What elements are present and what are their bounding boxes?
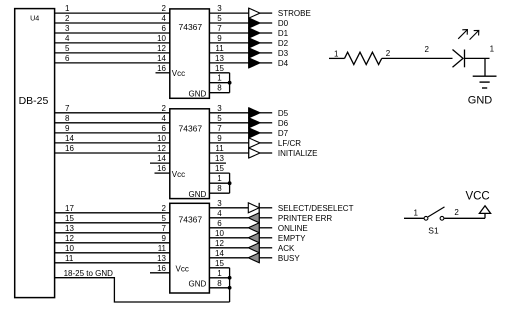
- buffer arrow D0 (filled): [249, 18, 260, 28]
- label DB-25: [19, 95, 49, 107]
- svg-text:10: 10: [65, 244, 74, 253]
- pin label 16 (U2): [157, 164, 166, 173]
- label EMPTY: [278, 234, 306, 243]
- svg-text:15: 15: [65, 214, 74, 223]
- wire U1 pin 15 stub: [209, 72, 229, 74]
- wire U3 pin 3 to buffer: [209, 207, 248, 209]
- svg-text:4: 4: [162, 14, 167, 23]
- pin label 1 (U3): [217, 269, 222, 278]
- pin label 13 (DB25 side): [65, 224, 74, 233]
- wire ONLINE to label: [259, 227, 272, 229]
- svg-text:STROBE: STROBE: [278, 9, 311, 18]
- pin label 3 (U2 output): [217, 104, 222, 113]
- wire U3 pin 15 stub: [209, 267, 229, 269]
- pin label 9 (U1 output): [217, 34, 222, 43]
- svg-text:2: 2: [162, 4, 167, 13]
- label D6: [278, 119, 289, 128]
- wire DB25 pins 18-25 to GND run: [55, 278, 230, 302]
- pin label 3 (U3 output): [217, 199, 222, 208]
- pin label 2 (S1): [454, 208, 459, 217]
- pin label 1 (S1): [414, 209, 419, 218]
- pin label 16 (U1): [157, 64, 166, 73]
- wire U1 enable tie vertical (pins 15/1/8): [229, 73, 231, 93]
- svg-text:14: 14: [65, 134, 74, 143]
- svg-text:3: 3: [65, 24, 70, 33]
- pin label 11 (U3 input): [158, 244, 167, 253]
- pin label 14 (U1 input): [157, 54, 166, 63]
- pin label 1 (U2): [217, 174, 222, 183]
- wire resistor pin 1 lead: [329, 57, 345, 59]
- wire ground drop: [484, 58, 486, 76]
- pin label 6 (U3 output): [217, 219, 222, 228]
- resistor R1: [345, 52, 382, 64]
- wire DB25 pin 14 to U2 pin 10: [55, 142, 170, 144]
- pin label 10 (U1 input): [157, 34, 166, 43]
- svg-text:Vcc: Vcc: [176, 265, 189, 274]
- svg-text:VCC: VCC: [465, 190, 489, 202]
- svg-text:GND: GND: [189, 280, 207, 289]
- pin label 2 (LED anode): [425, 45, 430, 54]
- label GND (U2): [189, 190, 207, 199]
- pin label 10 (U3 output): [215, 229, 224, 238]
- pin label 3 (DB25 side): [65, 24, 70, 33]
- wire switch pin 1 lead: [404, 217, 424, 219]
- wire U2 pin 9 to buffer: [209, 142, 248, 144]
- VCC symbol (open triangle): [479, 206, 490, 214]
- svg-text:7: 7: [162, 224, 167, 233]
- label STROBE: [278, 9, 311, 18]
- wire U3 pin 16 Vcc stub: [150, 272, 170, 274]
- svg-text:D7: D7: [278, 129, 289, 138]
- buffer IC U2 74367 body: [170, 109, 210, 199]
- wire U1 pin 7 to buffer: [209, 32, 248, 34]
- svg-text:14: 14: [157, 54, 166, 63]
- pin label 9 (U2 output): [217, 134, 222, 143]
- svg-text:10: 10: [157, 34, 166, 43]
- pin label 9 (U3 input): [162, 234, 167, 243]
- pin label 5 (U1 output): [217, 14, 222, 23]
- svg-text:PRINTER ERR: PRINTER ERR: [278, 214, 332, 223]
- wire DB25 pin 12 to U3 pin 9: [55, 242, 170, 244]
- svg-text:1: 1: [414, 209, 419, 218]
- pin label 12 (U3 output): [215, 239, 224, 248]
- buffer arrow EMPTY (gray, pointing left): [248, 233, 259, 243]
- svg-text:7: 7: [217, 24, 222, 33]
- svg-text:U4: U4: [30, 13, 39, 22]
- svg-text:8: 8: [65, 114, 70, 123]
- label GND (U3): [189, 280, 207, 289]
- svg-text:8: 8: [217, 184, 222, 193]
- pin label 11 (U2 output): [215, 144, 224, 153]
- wire U2 pin 5 to buffer: [209, 122, 248, 124]
- svg-text:5: 5: [217, 114, 222, 123]
- wire D3 to label: [260, 52, 272, 54]
- svg-text:D4: D4: [278, 59, 289, 68]
- pin label 16 (DB25 side): [65, 144, 74, 153]
- pin label 1 (U1): [217, 74, 222, 83]
- wire D7 to label: [260, 132, 272, 134]
- svg-text:6: 6: [162, 24, 167, 33]
- svg-text:BUSY: BUSY: [278, 254, 300, 263]
- pin label 2 (U2 input): [162, 104, 167, 113]
- svg-text:16: 16: [65, 144, 74, 153]
- wire PRINTER ERR to label: [259, 217, 272, 219]
- wire U1 pin 13 to buffer: [209, 62, 248, 64]
- wire U1 pin 16 Vcc stub: [156, 72, 170, 74]
- pin label 12 (DB25 side): [65, 234, 74, 243]
- svg-text:8: 8: [217, 279, 222, 288]
- pin label 1 (LED cathode): [490, 44, 495, 53]
- wire DB25 pin 5 to U1 pin 12: [55, 52, 170, 54]
- svg-text:9: 9: [162, 234, 167, 243]
- label ONLINE: [278, 224, 308, 233]
- svg-text:D2: D2: [278, 39, 289, 48]
- svg-text:1: 1: [334, 50, 339, 59]
- label BUSY: [278, 254, 300, 263]
- wire U1 pin 5 to buffer: [209, 22, 248, 24]
- buffer arrow ONLINE (gray, pointing left): [248, 223, 259, 233]
- pin label 12 (U2 input): [157, 144, 166, 153]
- pin label 15 (DB25 side): [65, 214, 74, 223]
- svg-text:14: 14: [215, 249, 224, 258]
- label 74367 (U2): [179, 124, 203, 134]
- buffer arrow LF/CR (open): [249, 138, 260, 148]
- label ACK: [278, 244, 295, 253]
- buffer arrow ACK (gray, pointing left): [248, 243, 259, 253]
- svg-text:14: 14: [157, 154, 166, 163]
- wire DB25 pin 9 to U2 pin 6: [55, 132, 170, 134]
- svg-text:3: 3: [217, 199, 222, 208]
- label VCC: [465, 190, 489, 202]
- wire U1 pin 3 to buffer: [209, 12, 248, 14]
- wire D2 to label: [260, 42, 272, 44]
- svg-text:Vcc: Vcc: [172, 170, 185, 179]
- wire EMPTY to label: [259, 237, 272, 239]
- svg-text:12: 12: [157, 144, 166, 153]
- pin label 1 (DB25 side): [65, 4, 70, 13]
- LED D1 anode arrow: [453, 50, 464, 68]
- svg-text:16: 16: [157, 264, 166, 273]
- svg-text:13: 13: [215, 154, 224, 163]
- svg-text:ONLINE: ONLINE: [278, 224, 308, 233]
- svg-text:15: 15: [215, 164, 224, 173]
- svg-text:LF/CR: LF/CR: [278, 139, 301, 148]
- svg-text:2: 2: [454, 208, 459, 217]
- wire U3 pin 4 to buffer: [209, 217, 248, 219]
- junction dot U3 pin 8: [228, 286, 232, 290]
- port bus line group 1: [248, 8, 250, 68]
- svg-text:15: 15: [215, 64, 224, 73]
- pin label 4 (DB25 side): [65, 34, 70, 43]
- svg-text:8: 8: [217, 84, 222, 93]
- buffer arrow D2 (filled): [249, 38, 260, 48]
- buffer arrow PRINTER ERR (gray, pointing left): [248, 213, 259, 223]
- switch S1 contact right: [440, 216, 444, 220]
- svg-text:3: 3: [217, 4, 222, 13]
- svg-text:9: 9: [217, 34, 222, 43]
- pin label 11 (U1 output): [215, 44, 224, 53]
- svg-text:2: 2: [162, 104, 167, 113]
- svg-text:13: 13: [157, 254, 166, 263]
- svg-text:18-25 to GND: 18-25 to GND: [64, 269, 114, 278]
- buffer arrow D3 (filled): [249, 48, 260, 58]
- ground symbol: [473, 76, 497, 88]
- LED D1 cathode bar: [464, 50, 466, 68]
- svg-text:1: 1: [490, 44, 495, 53]
- pin label 11 (DB25 side): [65, 254, 74, 263]
- port bus line group 2: [248, 108, 250, 158]
- svg-text:DB-25: DB-25: [19, 95, 49, 107]
- wire U2 pin 13 stub: [209, 162, 226, 164]
- svg-text:11: 11: [215, 44, 224, 53]
- svg-text:D6: D6: [278, 119, 289, 128]
- svg-text:12: 12: [215, 239, 224, 248]
- wire U1 pin 11 to buffer: [209, 52, 248, 54]
- label PRINTER ERR: [278, 214, 332, 223]
- label D5: [278, 109, 289, 118]
- pin label 15 (U3): [215, 259, 224, 268]
- wire DB25 pin 11 to U3 pin 13: [55, 262, 170, 264]
- port bus line group 3: [258, 203, 260, 263]
- pin label 8 (U1): [217, 84, 222, 93]
- pin label 4 (U3 output): [217, 209, 222, 218]
- label S1: [428, 225, 439, 235]
- label 74367 (U3): [179, 215, 203, 225]
- wire U1 pin 8 stub: [209, 92, 229, 94]
- wire LED cathode to ground node: [465, 57, 490, 59]
- pin label 6 (U2 input): [162, 124, 167, 133]
- wire U3 pin 12 to buffer: [209, 247, 248, 249]
- pin label 17 (DB25 side): [65, 204, 74, 213]
- wire D5 to label: [260, 112, 272, 114]
- pin label 4 (U2 input): [162, 114, 167, 123]
- pin label 16 (U3): [157, 264, 166, 273]
- label Vcc (U1 pin 16): [172, 69, 185, 78]
- wire U2 pin 7 to buffer: [209, 132, 248, 134]
- svg-text:16: 16: [157, 64, 166, 73]
- svg-text:ACK: ACK: [278, 244, 295, 253]
- pin label 6 (U1 input): [162, 24, 167, 33]
- buffer arrow D1 (filled): [249, 28, 260, 38]
- wire D1 to label: [260, 32, 272, 34]
- pin label 14 (U3 output): [215, 249, 224, 258]
- label D1: [278, 29, 289, 38]
- wire DB25 pin 4 to U1 pin 10: [55, 42, 170, 44]
- pin label 8 (U2): [217, 184, 222, 193]
- wire U2 pin 15 stub: [209, 172, 229, 174]
- pin label 2 (U3 input): [162, 204, 167, 213]
- pin label 2 (DB25 side): [65, 14, 70, 23]
- svg-text:2: 2: [162, 204, 167, 213]
- label Vcc (U2 pin 16): [172, 170, 185, 179]
- LED emission arrow 1: [458, 30, 467, 39]
- svg-text:1: 1: [217, 74, 222, 83]
- wire DB25 pin 17 to U3 pin 2: [55, 212, 170, 214]
- wire D4 to label: [260, 62, 272, 64]
- buffer arrow BUSY (gray, pointing left): [248, 253, 259, 263]
- wire U1 pin 9 to buffer: [209, 42, 248, 44]
- svg-text:GND: GND: [189, 90, 207, 99]
- wire ACK to label: [259, 247, 272, 249]
- pin label 5 (U2 output): [217, 114, 222, 123]
- svg-text:1: 1: [65, 4, 70, 13]
- svg-text:9: 9: [217, 134, 222, 143]
- svg-text:S1: S1: [428, 225, 439, 235]
- svg-text:10: 10: [157, 134, 166, 143]
- svg-text:12: 12: [65, 234, 74, 243]
- buffer arrow D6 (filled): [249, 118, 260, 128]
- pin label 10 (DB25 side): [65, 244, 74, 253]
- svg-text:7: 7: [217, 124, 222, 133]
- junction dot U1 pin 1: [228, 81, 232, 85]
- pin label 7 (U3 input): [162, 224, 167, 233]
- svg-text:INITIALIZE: INITIALIZE: [278, 149, 318, 158]
- svg-text:7: 7: [65, 104, 70, 113]
- svg-text:D5: D5: [278, 109, 289, 118]
- svg-text:1: 1: [217, 269, 222, 278]
- pin label 7 (DB25 side): [65, 104, 70, 113]
- pin label 2 (resistor): [386, 49, 391, 58]
- wire DB25 pin 10 to U3 pin 11: [55, 252, 170, 254]
- buffer arrow INITIALIZE (open): [249, 148, 260, 158]
- pin label 15 (U1): [215, 64, 224, 73]
- label 18-25 to GND: [64, 269, 114, 278]
- LED emission arrow 2: [470, 30, 479, 39]
- svg-text:6: 6: [65, 54, 70, 63]
- wire DB25 pin 13 to U3 pin 7: [55, 232, 170, 234]
- pin label 5 (DB25 side): [65, 44, 70, 53]
- wire U2 pin 16 Vcc stub: [155, 172, 170, 174]
- wire SELECT/DESELECT to label: [259, 207, 272, 209]
- svg-text:5: 5: [162, 214, 167, 223]
- svg-text:EMPTY: EMPTY: [278, 234, 306, 243]
- pin label 10 (U2 input): [157, 134, 166, 143]
- label GND (U1): [189, 90, 207, 99]
- pin label 13 (U1 output): [215, 54, 224, 63]
- wire U2 pin 3 to buffer: [209, 112, 248, 114]
- svg-text:74367: 74367: [179, 215, 203, 225]
- svg-text:11: 11: [158, 244, 167, 253]
- svg-text:D0: D0: [278, 19, 289, 28]
- wire U3 pin 10 to buffer: [209, 237, 248, 239]
- svg-text:4: 4: [65, 34, 70, 43]
- label SELECT/DESELECT: [278, 204, 354, 213]
- pin label 9 (DB25 side): [65, 124, 70, 133]
- svg-text:SELECT/DESELECT: SELECT/DESELECT: [278, 204, 354, 213]
- svg-text:GND: GND: [189, 190, 207, 199]
- pin label 3 (U1 output): [217, 4, 222, 13]
- svg-text:2: 2: [65, 14, 70, 23]
- label D7: [278, 129, 289, 138]
- svg-text:5: 5: [217, 14, 222, 23]
- label GND (ground symbol): [468, 95, 493, 107]
- wire BUSY to label: [259, 257, 272, 259]
- wire U1 pin 1 stub: [209, 82, 229, 84]
- svg-text:5: 5: [65, 44, 70, 53]
- wire DB25 pin 16 to U2 pin 12: [55, 152, 170, 154]
- wire resistor to LED anode: [382, 57, 453, 59]
- svg-text:13: 13: [215, 54, 224, 63]
- wire DB25 pin 2 to U1 pin 4: [55, 22, 170, 24]
- pin label 13 (U3 input): [157, 254, 166, 263]
- pin label 12 (U1 input): [157, 44, 166, 53]
- svg-text:2: 2: [386, 49, 391, 58]
- wire U2 enable tie vertical (pins 15/1/8): [229, 173, 231, 193]
- buffer IC U1 74367 body: [170, 9, 210, 98]
- wire U3 pin 1 stub: [209, 277, 229, 279]
- pin label 1 (resistor): [334, 50, 339, 59]
- svg-text:11: 11: [65, 254, 74, 263]
- svg-text:2: 2: [425, 45, 430, 54]
- wire DB25 pin 6 to U1 pin 14: [55, 62, 170, 64]
- svg-text:74367: 74367: [179, 124, 203, 134]
- pin label 13 (U2): [215, 154, 224, 163]
- wire U3 pin 14 to buffer: [209, 257, 248, 259]
- pin label 2 (U1 input): [162, 4, 167, 13]
- wire U3 pin 8 stub: [209, 287, 229, 289]
- pin label 14 (DB25 side): [65, 134, 74, 143]
- label D0: [278, 19, 289, 28]
- svg-text:3: 3: [217, 104, 222, 113]
- wire U2 pin 1 stub: [209, 182, 229, 184]
- buffer arrow D4 (filled): [249, 58, 260, 68]
- wire LF/CR to label: [260, 142, 272, 144]
- svg-text:Vcc: Vcc: [172, 69, 185, 78]
- junction dot U2 pin 1: [228, 181, 232, 185]
- svg-text:74367: 74367: [179, 22, 203, 32]
- wire switch pin 2 to VCC: [444, 217, 485, 219]
- svg-text:15: 15: [215, 259, 224, 268]
- wire DB25 pin 7 to U2 pin 2: [55, 112, 170, 114]
- wire U3 pin 6 to buffer: [209, 227, 248, 229]
- label 74367 (U1): [179, 22, 203, 32]
- svg-text:4: 4: [162, 114, 167, 123]
- wire U2 pin 14 stub: [150, 162, 170, 164]
- label D2: [278, 39, 289, 48]
- svg-text:11: 11: [215, 144, 224, 153]
- wire DB25 pin 1 to U1 pin 2: [55, 12, 170, 14]
- label U4: [30, 13, 39, 22]
- wire DB25 pin 8 to U2 pin 4: [55, 122, 170, 124]
- junction dot U3 pin 1: [228, 276, 232, 280]
- svg-text:D1: D1: [278, 29, 289, 38]
- pin label 8 (U3): [217, 279, 222, 288]
- svg-text:4: 4: [217, 209, 222, 218]
- label INITIALIZE: [278, 149, 318, 158]
- pin label 14 (U2): [157, 154, 166, 163]
- svg-text:17: 17: [65, 204, 74, 213]
- buffer arrow STROBE (open): [249, 8, 260, 18]
- svg-text:1: 1: [217, 174, 222, 183]
- label LF/CR: [278, 139, 301, 148]
- wire STROBE to label: [260, 12, 272, 14]
- wire D0 to label: [260, 22, 272, 24]
- svg-text:12: 12: [157, 44, 166, 53]
- label D3: [278, 49, 289, 58]
- pin label 8 (DB25 side): [65, 114, 70, 123]
- wire INITIALIZE to label: [260, 152, 272, 154]
- switch S1 lever: [428, 207, 445, 217]
- wire DB25 pin 15 to U3 pin 5: [55, 222, 170, 224]
- svg-text:10: 10: [215, 229, 224, 238]
- switch S1 contact left: [424, 216, 428, 220]
- svg-text:D3: D3: [278, 49, 289, 58]
- svg-text:6: 6: [162, 124, 167, 133]
- svg-text:GND: GND: [468, 95, 493, 107]
- buffer arrow D5 (filled): [249, 108, 260, 118]
- pin label 7 (U1 output): [217, 24, 222, 33]
- buffer IC U3 74367 body: [170, 203, 210, 293]
